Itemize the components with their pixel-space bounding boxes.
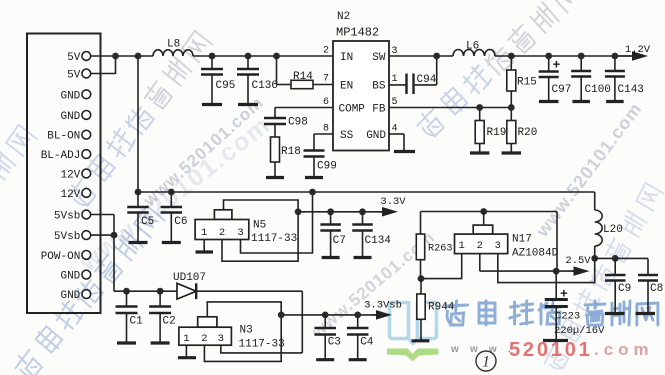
svg-text:2: 2: [201, 333, 207, 345]
svg-text:C97: C97: [552, 84, 572, 96]
svg-text:N5: N5: [253, 220, 266, 232]
svg-text:R20: R20: [518, 127, 538, 139]
svg-text:R18: R18: [281, 146, 301, 158]
svg-text:3: 3: [495, 240, 501, 252]
svg-text:R263: R263: [428, 244, 452, 255]
svg-text:GND: GND: [366, 130, 386, 142]
svg-text:www.520101.com: www.520101.com: [532, 99, 646, 242]
svg-text:3: 3: [237, 227, 243, 239]
svg-text:5V: 5V: [67, 52, 81, 64]
svg-text:AZ1084D: AZ1084D: [512, 248, 559, 260]
svg-text:220µ/16V: 220µ/16V: [554, 325, 605, 337]
svg-text:1117-33: 1117-33: [251, 233, 297, 245]
svg-text:GND: GND: [60, 290, 80, 302]
svg-text:R14: R14: [293, 71, 313, 83]
svg-text:C3: C3: [328, 337, 341, 349]
svg-text:1.2V: 1.2V: [625, 44, 651, 56]
svg-text:N3: N3: [240, 325, 253, 337]
svg-text:5Vsb: 5Vsb: [54, 231, 80, 243]
svg-text:N17: N17: [512, 234, 532, 246]
svg-text:C7: C7: [333, 235, 346, 247]
svg-text:C6: C6: [174, 216, 187, 228]
svg-text:520101: 520101: [509, 339, 593, 361]
svg-text:4: 4: [392, 124, 398, 135]
svg-text:N2: N2: [337, 11, 350, 23]
svg-text:C134: C134: [365, 235, 392, 247]
svg-text:+: +: [553, 58, 561, 73]
svg-text:2: 2: [477, 240, 483, 252]
svg-text:SS: SS: [340, 130, 354, 142]
svg-text:C4: C4: [360, 337, 374, 349]
svg-text:BS: BS: [372, 81, 386, 93]
svg-text:8: 8: [323, 124, 329, 135]
svg-text:2: 2: [323, 46, 329, 57]
svg-text:C100: C100: [585, 84, 611, 96]
svg-text:POW-ON: POW-ON: [41, 251, 81, 263]
svg-text:2: 2: [219, 227, 225, 239]
svg-text:1: 1: [459, 240, 465, 252]
svg-text:MP1482: MP1482: [336, 25, 379, 39]
svg-text:EN: EN: [340, 81, 353, 93]
svg-text:7: 7: [323, 74, 329, 85]
svg-text:6: 6: [323, 97, 329, 108]
svg-text:COMP: COMP: [339, 104, 366, 116]
svg-text:SW: SW: [372, 52, 386, 64]
svg-text:3.3V: 3.3V: [380, 196, 406, 208]
svg-text:5: 5: [392, 97, 398, 108]
svg-text:5Vsb: 5Vsb: [54, 211, 80, 223]
svg-text:.com: .com: [594, 340, 654, 359]
svg-text:L6: L6: [466, 41, 479, 53]
svg-text:12V: 12V: [60, 189, 80, 201]
svg-text:GND: GND: [60, 111, 80, 123]
svg-text:5V: 5V: [67, 70, 81, 82]
svg-text:GND: GND: [60, 90, 80, 102]
svg-text:BL-ON: BL-ON: [47, 131, 80, 143]
svg-text:L8: L8: [167, 39, 180, 51]
svg-text:C94: C94: [417, 74, 437, 86]
svg-text:C143: C143: [618, 84, 644, 96]
svg-text:GND: GND: [60, 271, 80, 283]
svg-text:+: +: [560, 287, 568, 302]
svg-text:L20: L20: [603, 224, 623, 236]
svg-text:1: 1: [482, 354, 490, 371]
svg-text:BL-ADJ: BL-ADJ: [41, 150, 81, 162]
svg-text:C223: C223: [555, 310, 580, 322]
svg-text:C8: C8: [650, 283, 663, 295]
svg-text:C1: C1: [130, 316, 144, 328]
svg-text:C5: C5: [141, 216, 154, 228]
svg-text:IN: IN: [340, 52, 353, 64]
svg-text:C2: C2: [163, 316, 176, 328]
svg-text:1117-33: 1117-33: [239, 339, 285, 351]
svg-text:C98: C98: [288, 117, 308, 129]
svg-text:FB: FB: [372, 104, 386, 116]
svg-text:3: 3: [218, 333, 224, 345]
svg-text:C95: C95: [216, 80, 236, 92]
svg-text:R944: R944: [428, 302, 455, 314]
svg-text:C99: C99: [317, 161, 337, 173]
svg-text:C9: C9: [618, 283, 631, 295]
svg-text:C136: C136: [252, 80, 278, 92]
svg-text:1: 1: [201, 227, 207, 239]
svg-text:R15: R15: [517, 77, 537, 89]
svg-text:1: 1: [183, 333, 189, 345]
svg-text:UD107: UD107: [173, 272, 206, 284]
svg-text:R19: R19: [487, 127, 507, 139]
svg-text:3.3Vsb: 3.3Vsb: [364, 299, 402, 311]
svg-text:2.5V: 2.5V: [565, 255, 591, 267]
svg-text:1: 1: [392, 74, 398, 85]
svg-text:12V: 12V: [60, 170, 80, 182]
